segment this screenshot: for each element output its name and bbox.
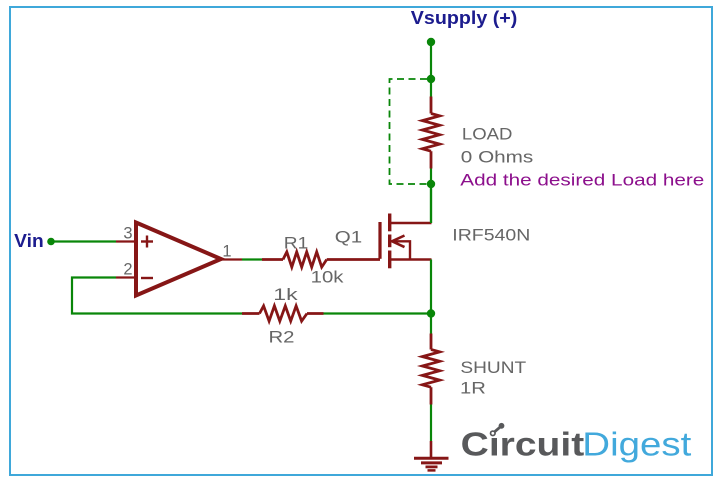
channel bar middle [388,235,391,248]
node Vin dot [47,238,55,246]
svg-text:0 Ohms: 0 Ohms [461,148,534,167]
wire: load bottom lead to junction [430,169,432,185]
resistor LOAD [422,97,439,169]
svg-text:Digest: Digest [582,426,691,463]
ground [414,441,449,470]
resistor SHUNT [422,334,439,405]
node Vsupply dot [427,38,435,46]
svg-text:LOAD: LOAD [462,125,513,144]
svg-text:Vin: Vin [14,230,44,251]
logo i pin [493,426,501,433]
wire: Vin to pin 3 [51,240,116,242]
op-amp U1 triangle [136,223,221,296]
wire: R2 to junction [324,312,432,314]
node junction bottom of load [427,180,435,188]
dashed load-bypass outline [390,79,428,184]
svg-text:10k: 10k [311,267,344,286]
op-amp minus mark [141,277,153,279]
svg-text:Add the desired Load here: Add the desired Load here [460,171,704,190]
pin 3 lead [116,240,136,242]
svg-text:2: 2 [123,261,132,279]
svg-text:1: 1 [222,243,231,261]
pin 1 lead [221,258,242,260]
wire: source down to junction [430,260,432,314]
gate bar [378,222,381,259]
wire: junction to load top lead [430,79,432,97]
drain lead [390,222,432,225]
svg-text:1k: 1k [273,285,298,304]
channel bar bottom [388,251,391,269]
svg-text:3: 3 [123,225,132,243]
pin 2 lead [116,276,136,278]
op-amp plus mark [141,236,153,248]
wire: feedback from pin 2 [72,278,242,314]
body diode arrow [392,241,411,259]
logo CircuitDigest [461,423,692,463]
source lead [390,258,432,261]
svg-text:Q1: Q1 [335,227,362,246]
channel bar top [388,214,391,232]
svg-text:IRF540N: IRF540N [452,226,530,245]
node junction source/R2/shunt [427,309,435,317]
svg-text:SHUNT: SHUNT [460,358,526,377]
wire: drain up [430,184,432,223]
resistor R2 [242,306,324,321]
svg-text:R1: R1 [284,233,309,252]
svg-text:Vsupply (+): Vsupply (+) [411,8,518,28]
transistor Q1 MOSFET [380,214,432,269]
wire: junction down to drain [430,184,432,223]
resistor R1 [262,252,380,267]
wire: junction to shunt [430,314,432,334]
wire: shunt to ground [430,405,432,442]
wire: pin1 to R1 [242,258,262,260]
svg-text:Cırcuit: Cırcuit [461,426,585,463]
svg-text:1R: 1R [460,379,486,398]
wire: Vsupply vertical to junction [430,42,432,79]
node junction top of load [427,75,435,83]
svg-text:R2: R2 [269,328,295,347]
